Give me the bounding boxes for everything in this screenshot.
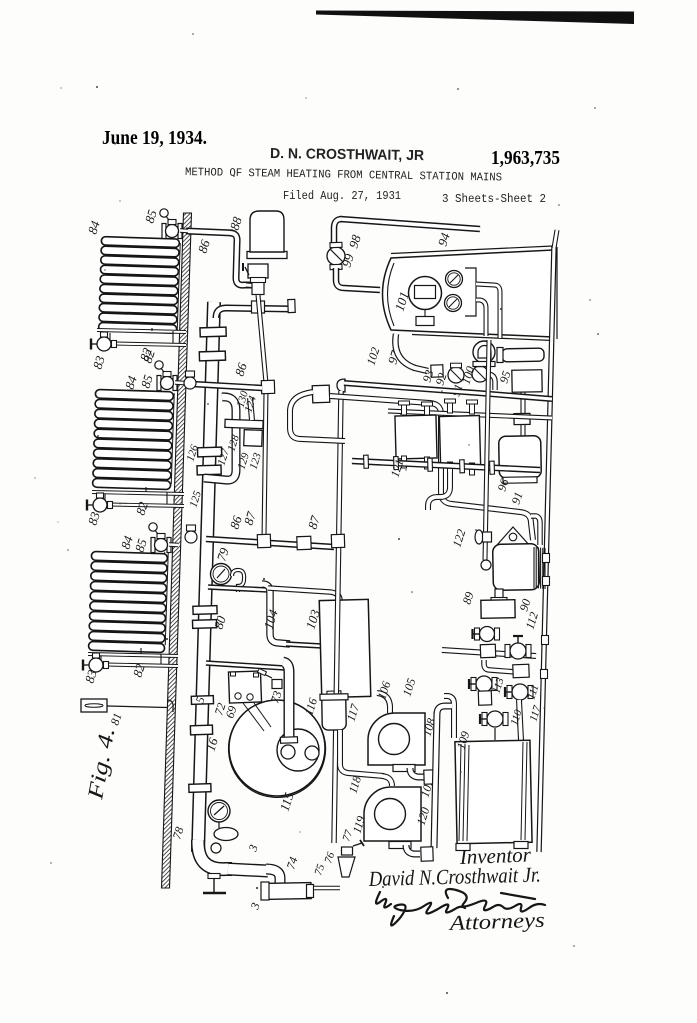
inner drum cap bbox=[305, 746, 319, 760]
label 16 bbox=[203, 735, 221, 752]
pipe 102 bbox=[344, 383, 552, 399]
radiator 3 lower return pipe 82 bbox=[106, 665, 178, 667]
label 81 bbox=[108, 711, 125, 727]
tank T1 stubs bottom bbox=[402, 456, 430, 469]
radiator 2 return stubs bbox=[105, 487, 167, 504]
radiator 1 supply valve 85 bbox=[160, 209, 182, 239]
wall hatched band bbox=[162, 213, 192, 888]
svg-text:3 Sheets-Sheet 2: 3 Sheets-Sheet 2 bbox=[442, 192, 546, 206]
tank T1 bbox=[395, 415, 437, 459]
label 84 r1 bbox=[85, 218, 103, 235]
filed line bbox=[283, 189, 401, 203]
pipe to tank 103 top bbox=[268, 588, 340, 601]
pipe 116 end ball bbox=[281, 745, 295, 759]
patent date bbox=[102, 127, 207, 149]
radiator 84 (bottom) bbox=[88, 551, 167, 652]
label 120 bbox=[414, 805, 433, 826]
radiator 84 (top) bbox=[99, 237, 180, 334]
pump 106 body bbox=[368, 713, 425, 765]
pipe 116 down bbox=[283, 662, 289, 742]
main pipe coupling 1 bbox=[200, 327, 226, 337]
box 123 bbox=[244, 430, 263, 447]
label 111 bbox=[525, 683, 541, 701]
main supply pipe 5 bbox=[198, 302, 214, 852]
flange plate of 88 bbox=[247, 252, 287, 259]
device 74 body bbox=[261, 882, 314, 900]
flange on branch bbox=[288, 299, 295, 312]
label 110 bbox=[508, 708, 524, 727]
tank 94 top inner line bbox=[391, 246, 557, 341]
label 77 bbox=[340, 828, 355, 843]
line B pipe bbox=[330, 396, 533, 540]
valve 73 bbox=[258, 668, 282, 688]
bracket triangle 90 bbox=[497, 527, 530, 546]
pipe 104 vertical bbox=[262, 584, 290, 644]
main pipe coupling 4 bbox=[197, 465, 221, 475]
radiator 3 end plate bbox=[164, 552, 167, 645]
label 99 bbox=[339, 251, 357, 268]
device 90 right flanges bbox=[543, 554, 550, 586]
pipe to trap tee bbox=[246, 285, 258, 286]
pipe 98 elbow down bbox=[334, 219, 342, 244]
valve 88 bonnet bbox=[243, 263, 268, 283]
pipe from 117 down bbox=[340, 730, 384, 776]
valve 112b bbox=[505, 636, 531, 659]
tank T2 bbox=[439, 415, 480, 466]
valve 100b bbox=[472, 362, 488, 382]
tank 103 bbox=[319, 599, 371, 697]
regulator dial 101 bbox=[409, 277, 442, 310]
device 90 body bbox=[493, 544, 540, 591]
label 85 r1 bbox=[142, 207, 160, 224]
flange 122 bbox=[475, 530, 492, 544]
tee under cylinder 88 bbox=[252, 282, 264, 295]
label 119 bbox=[350, 814, 369, 835]
pipe 121 flange 4 bbox=[460, 460, 465, 473]
radiator 1 lower return pipe 82 bbox=[114, 344, 186, 346]
radiator 3 return valve 83 bbox=[83, 653, 109, 672]
tee on branch a bbox=[252, 301, 265, 313]
pipe 107 vertical bbox=[434, 712, 437, 848]
label 83 r3 bbox=[82, 667, 100, 684]
tank T1 stubs top bbox=[399, 401, 433, 416]
valve 92 bbox=[448, 363, 464, 383]
label 115 bbox=[277, 790, 297, 813]
label 116 bbox=[302, 696, 321, 717]
tank T2 stubs top bbox=[445, 399, 478, 414]
elbow under 121 b bbox=[428, 497, 436, 510]
label 117b bbox=[527, 704, 543, 723]
patent number bbox=[491, 147, 560, 169]
label 129 bbox=[235, 451, 252, 471]
label 85 r2 bbox=[138, 372, 156, 389]
radiator 3 return stubs bbox=[101, 648, 161, 664]
radiator 1 return stubs bbox=[110, 328, 173, 343]
radiator 3 upper return pipe 82 bbox=[88, 654, 178, 656]
label 82 r3 bbox=[130, 661, 148, 678]
branch pipe 87 bbox=[206, 539, 334, 547]
thermostat wire bbox=[107, 706, 167, 708]
pipe 91 upper bbox=[476, 300, 486, 336]
flange on 116 bbox=[280, 737, 297, 744]
label 3a bbox=[245, 843, 260, 854]
right header top stub bbox=[554, 230, 557, 248]
label 86 87 pair bbox=[227, 509, 259, 530]
label 126 bbox=[184, 443, 201, 463]
branch pipe 86 lower bbox=[192, 384, 262, 388]
pipe into 90 coil bbox=[531, 516, 540, 545]
flange header 128 bbox=[225, 419, 263, 428]
tank 109 inner lines bbox=[459, 742, 527, 841]
sheet line bbox=[442, 192, 546, 206]
right header pipe bbox=[539, 246, 554, 852]
label 92 bbox=[433, 371, 450, 387]
pump 106 foot bbox=[393, 765, 415, 772]
pipe 98 bbox=[340, 219, 480, 229]
tank header pipe bbox=[388, 411, 552, 418]
cylinder 95 bbox=[497, 348, 544, 363]
branch pipe to 116 bbox=[206, 663, 285, 668]
label 3b bbox=[247, 901, 262, 912]
steam trap 88 body bbox=[250, 211, 284, 252]
label 125 bbox=[187, 489, 204, 509]
top branch elbow bbox=[230, 233, 252, 285]
label 121 bbox=[388, 457, 407, 478]
main pipe coupling 5 bbox=[193, 606, 217, 615]
thermostat 81 bbox=[81, 699, 107, 712]
main pipe coupling 3 bbox=[197, 447, 221, 457]
pipe 104 to tank 103 bbox=[286, 644, 322, 646]
label 95 bbox=[497, 369, 514, 385]
pipe 91 end ball bbox=[481, 560, 491, 570]
label 124 bbox=[242, 394, 259, 414]
coupling 107b bbox=[421, 847, 433, 861]
label 76 bbox=[322, 850, 337, 865]
label 93 bbox=[420, 368, 437, 384]
label 75 bbox=[312, 862, 327, 877]
tank T2 stubs bottom bbox=[448, 462, 475, 475]
pump 120 impeller bbox=[375, 799, 406, 830]
tank 109 bbox=[455, 740, 532, 844]
title line bbox=[185, 166, 502, 185]
label 82 r2b bbox=[133, 499, 151, 516]
elbow 113 top bbox=[484, 660, 516, 672]
label 78 bbox=[170, 825, 187, 841]
blowdown valve handwheel bbox=[203, 874, 226, 894]
label 82 r1 bbox=[137, 345, 155, 362]
ball valve 99 bbox=[327, 242, 345, 269]
tank 103 bottom flange bbox=[327, 691, 341, 697]
label 87 right bbox=[305, 513, 323, 530]
valve 111 bbox=[505, 684, 533, 700]
radiator 2 supply valve 85 bbox=[155, 361, 177, 391]
pipe 99 down to tank bbox=[336, 268, 380, 290]
tee 124 bbox=[261, 380, 274, 393]
label 69 bbox=[223, 704, 240, 720]
elbow after 100b bbox=[488, 374, 495, 390]
wire from 69 to boiler a bbox=[243, 703, 264, 731]
S pipe bbox=[290, 392, 345, 441]
valve 112a bbox=[473, 627, 500, 642]
radiator 84 (middle) bbox=[92, 389, 173, 489]
coupling B1 bbox=[312, 385, 330, 403]
pipe 121 flange 3 bbox=[428, 458, 433, 471]
motor 96 bbox=[499, 436, 542, 479]
radiator 1 upper return pipe 82 bbox=[97, 330, 186, 332]
label 113 bbox=[490, 676, 506, 695]
svg-text:David N.Crosthwait Jr.: David N.Crosthwait Jr. bbox=[368, 863, 541, 892]
label 101 bbox=[392, 290, 412, 313]
figure label Fig. 4. bbox=[82, 726, 119, 802]
label 85 r3 bbox=[132, 536, 150, 553]
radiator 2 lower return pipe 82 bbox=[110, 505, 184, 507]
attorneys word bbox=[447, 908, 545, 935]
label 83 r2 bbox=[85, 509, 103, 526]
radiator 3 supply valve 85 bbox=[149, 523, 171, 553]
label 127 bbox=[215, 447, 232, 467]
label 90 bbox=[517, 597, 534, 613]
gauge 78 stem bbox=[218, 822, 220, 828]
main pipe coupling 6 bbox=[192, 620, 216, 629]
siphon loop bbox=[232, 570, 244, 592]
label 84 r3 bbox=[118, 533, 136, 550]
pipe 110 down bbox=[519, 700, 521, 740]
pipe 121 flange 5 bbox=[490, 461, 495, 474]
bottom horizontal pipe 3 bbox=[228, 869, 268, 871]
boiler shell outer arc bbox=[229, 720, 326, 798]
svg-text:D. N. CROSTHWAIT, JR: D. N. CROSTHWAIT, JR bbox=[270, 146, 425, 164]
radiator 2 upper return pipe 82 bbox=[92, 492, 184, 494]
label 128 bbox=[225, 433, 242, 453]
elbow under 121 bbox=[436, 472, 450, 497]
pipe 102 cap bbox=[337, 379, 345, 392]
radiator 2 return valve 83 bbox=[87, 493, 113, 512]
tee on 87 bbox=[257, 534, 270, 547]
label 117 bbox=[344, 701, 363, 723]
main pipe coupling 7 bbox=[191, 696, 213, 705]
label 96 bbox=[495, 477, 512, 493]
pump 120 foot bbox=[389, 842, 411, 849]
coupling 93 bbox=[431, 365, 443, 377]
inventor signature bbox=[368, 863, 541, 892]
pump 106 impeller bbox=[379, 724, 410, 755]
label 80 bbox=[211, 613, 229, 630]
label 5 bbox=[193, 695, 208, 705]
svg-text:Attorneys: Attorneys bbox=[447, 908, 545, 935]
scan artifact black bar bbox=[316, 11, 634, 25]
pump 100 bbox=[473, 341, 495, 367]
gauge 79 bbox=[211, 564, 232, 585]
pipe from 74 to funnel bbox=[314, 886, 340, 891]
pipe 121 flange 2 bbox=[394, 457, 399, 470]
radiator 1 supply stub bbox=[180, 228, 188, 233]
label 103 bbox=[303, 607, 323, 631]
wall hook bbox=[167, 700, 173, 712]
label 84 r2 bbox=[122, 373, 140, 390]
coupling 107a bbox=[424, 770, 436, 784]
main pipe coupling 2 bbox=[199, 351, 225, 361]
device 90 coil bbox=[534, 547, 545, 589]
coupling 112 bbox=[480, 644, 495, 658]
label 72 bbox=[212, 701, 229, 717]
label 100 bbox=[459, 364, 478, 385]
label 91b bbox=[509, 490, 526, 506]
label 79 bbox=[214, 545, 232, 562]
elbow 130 bbox=[204, 397, 236, 480]
paper speckles bbox=[34, 33, 598, 994]
elbow to 74 bbox=[266, 869, 280, 884]
label 108 bbox=[420, 716, 439, 737]
label 89 bbox=[460, 590, 477, 606]
pipe 121 flange 1 bbox=[364, 455, 369, 468]
flanged valve top bbox=[513, 664, 529, 678]
label 105 bbox=[400, 676, 419, 697]
main pipe coupling 9 bbox=[189, 784, 211, 793]
label 104 bbox=[261, 607, 281, 631]
pipe 121 flanged bbox=[352, 461, 540, 470]
shaft coupling bbox=[514, 413, 530, 424]
right header jog a bbox=[542, 636, 549, 645]
gauge 78 bbox=[208, 800, 230, 822]
gauge a on 94 bbox=[446, 271, 463, 288]
pump 120 body bbox=[364, 787, 421, 841]
pump 106 suction stub bbox=[377, 693, 390, 713]
radiator 2 end plate bbox=[170, 393, 173, 484]
curved pipe 97 bbox=[395, 334, 428, 371]
label 88 bbox=[227, 214, 245, 231]
coupling on drip leg bbox=[331, 534, 344, 547]
bracket plate 94 bbox=[465, 268, 476, 316]
vertical pipe 127 bbox=[250, 398, 252, 420]
label 118 bbox=[346, 774, 365, 795]
box 89 bbox=[481, 600, 515, 619]
boiler inner drum bbox=[277, 729, 319, 771]
label 86 top bbox=[195, 237, 213, 254]
svg-text:Filed Aug. 27, 1931: Filed Aug. 27, 1931 bbox=[283, 189, 401, 203]
elbow from left bbox=[444, 696, 454, 738]
label 112 bbox=[523, 610, 542, 631]
label 123 bbox=[247, 451, 264, 471]
pipe 107 top elbow bbox=[437, 706, 452, 714]
gauge b on 94 bbox=[445, 295, 462, 312]
cylinder 117 bbox=[320, 694, 348, 730]
tank 109 legs bbox=[456, 842, 528, 851]
right header jog b bbox=[541, 670, 548, 679]
radiator 1 return valve 83 bbox=[91, 332, 117, 351]
attorney signature scrawl bbox=[376, 889, 545, 926]
inventor name heading bbox=[270, 146, 425, 164]
label 73 bbox=[268, 689, 285, 705]
funnel 75 bbox=[338, 857, 355, 877]
elbow to pump 120 bbox=[382, 776, 392, 786]
label 94 bbox=[435, 230, 453, 247]
thin pipe 126 bbox=[264, 390, 266, 538]
wall valve on 86 bbox=[184, 371, 196, 389]
drip leg from 102 bbox=[334, 391, 341, 843]
shaft 95-96 bbox=[521, 392, 525, 436]
box 69 72 bbox=[228, 671, 261, 703]
boiler shell 115 bbox=[229, 700, 325, 796]
svg-text:June 19, 1934.: June 19, 1934. bbox=[102, 127, 207, 149]
device 90 stem bbox=[491, 589, 507, 603]
inventor word bbox=[458, 842, 532, 869]
thin pipe under tee bbox=[258, 295, 266, 383]
main pipe coupling 8 bbox=[190, 725, 212, 735]
box under 95 bbox=[512, 370, 542, 393]
valve 77 bbox=[342, 840, 365, 855]
svg-text:1,963,735: 1,963,735 bbox=[491, 147, 560, 169]
valve on tank 109 top bbox=[480, 711, 508, 740]
radiator 1 end plate bbox=[176, 243, 179, 330]
branch pipe from main elbow bbox=[216, 308, 292, 318]
wire from 69 to boiler b bbox=[254, 703, 271, 727]
label 74 bbox=[284, 855, 301, 871]
label 130 bbox=[234, 389, 251, 409]
label 122 bbox=[450, 527, 469, 548]
valve 113 bbox=[469, 676, 497, 692]
label 107 bbox=[418, 777, 437, 799]
main pipe bottom elbow bbox=[198, 840, 232, 869]
pump 120 discharge elbow bbox=[406, 845, 420, 854]
wall valve on 87 bbox=[185, 525, 197, 543]
coupling 110b bbox=[478, 691, 491, 705]
branch pipe to 104 bbox=[208, 587, 268, 590]
label 97 bbox=[385, 348, 403, 365]
label 86 mid bbox=[232, 360, 250, 377]
branch pipe 86 top bbox=[186, 231, 233, 233]
pipe 112 horizontal bbox=[442, 650, 536, 656]
label 91 bbox=[449, 382, 466, 398]
label 82 r2a bbox=[140, 347, 158, 364]
label 109 bbox=[454, 729, 473, 750]
dial stem bbox=[416, 310, 434, 326]
small circle under 78 bbox=[211, 843, 221, 853]
diaphragm 78 bbox=[214, 828, 238, 841]
label 106 bbox=[375, 679, 394, 700]
label 98 bbox=[346, 232, 364, 249]
coupling on 87 bbox=[297, 536, 311, 549]
label 83 r1 bbox=[90, 353, 108, 370]
radiator 3 supply stub bbox=[169, 542, 178, 547]
motor 96 foot bbox=[503, 477, 537, 484]
pipe 91 vertical bbox=[485, 340, 489, 560]
pipe from bracket right bbox=[476, 284, 500, 338]
radiator 2 supply stub bbox=[175, 380, 184, 385]
tank 94 shell bbox=[383, 250, 554, 337]
label 102 bbox=[364, 345, 383, 366]
pump 106 discharge elbow bbox=[410, 768, 424, 777]
